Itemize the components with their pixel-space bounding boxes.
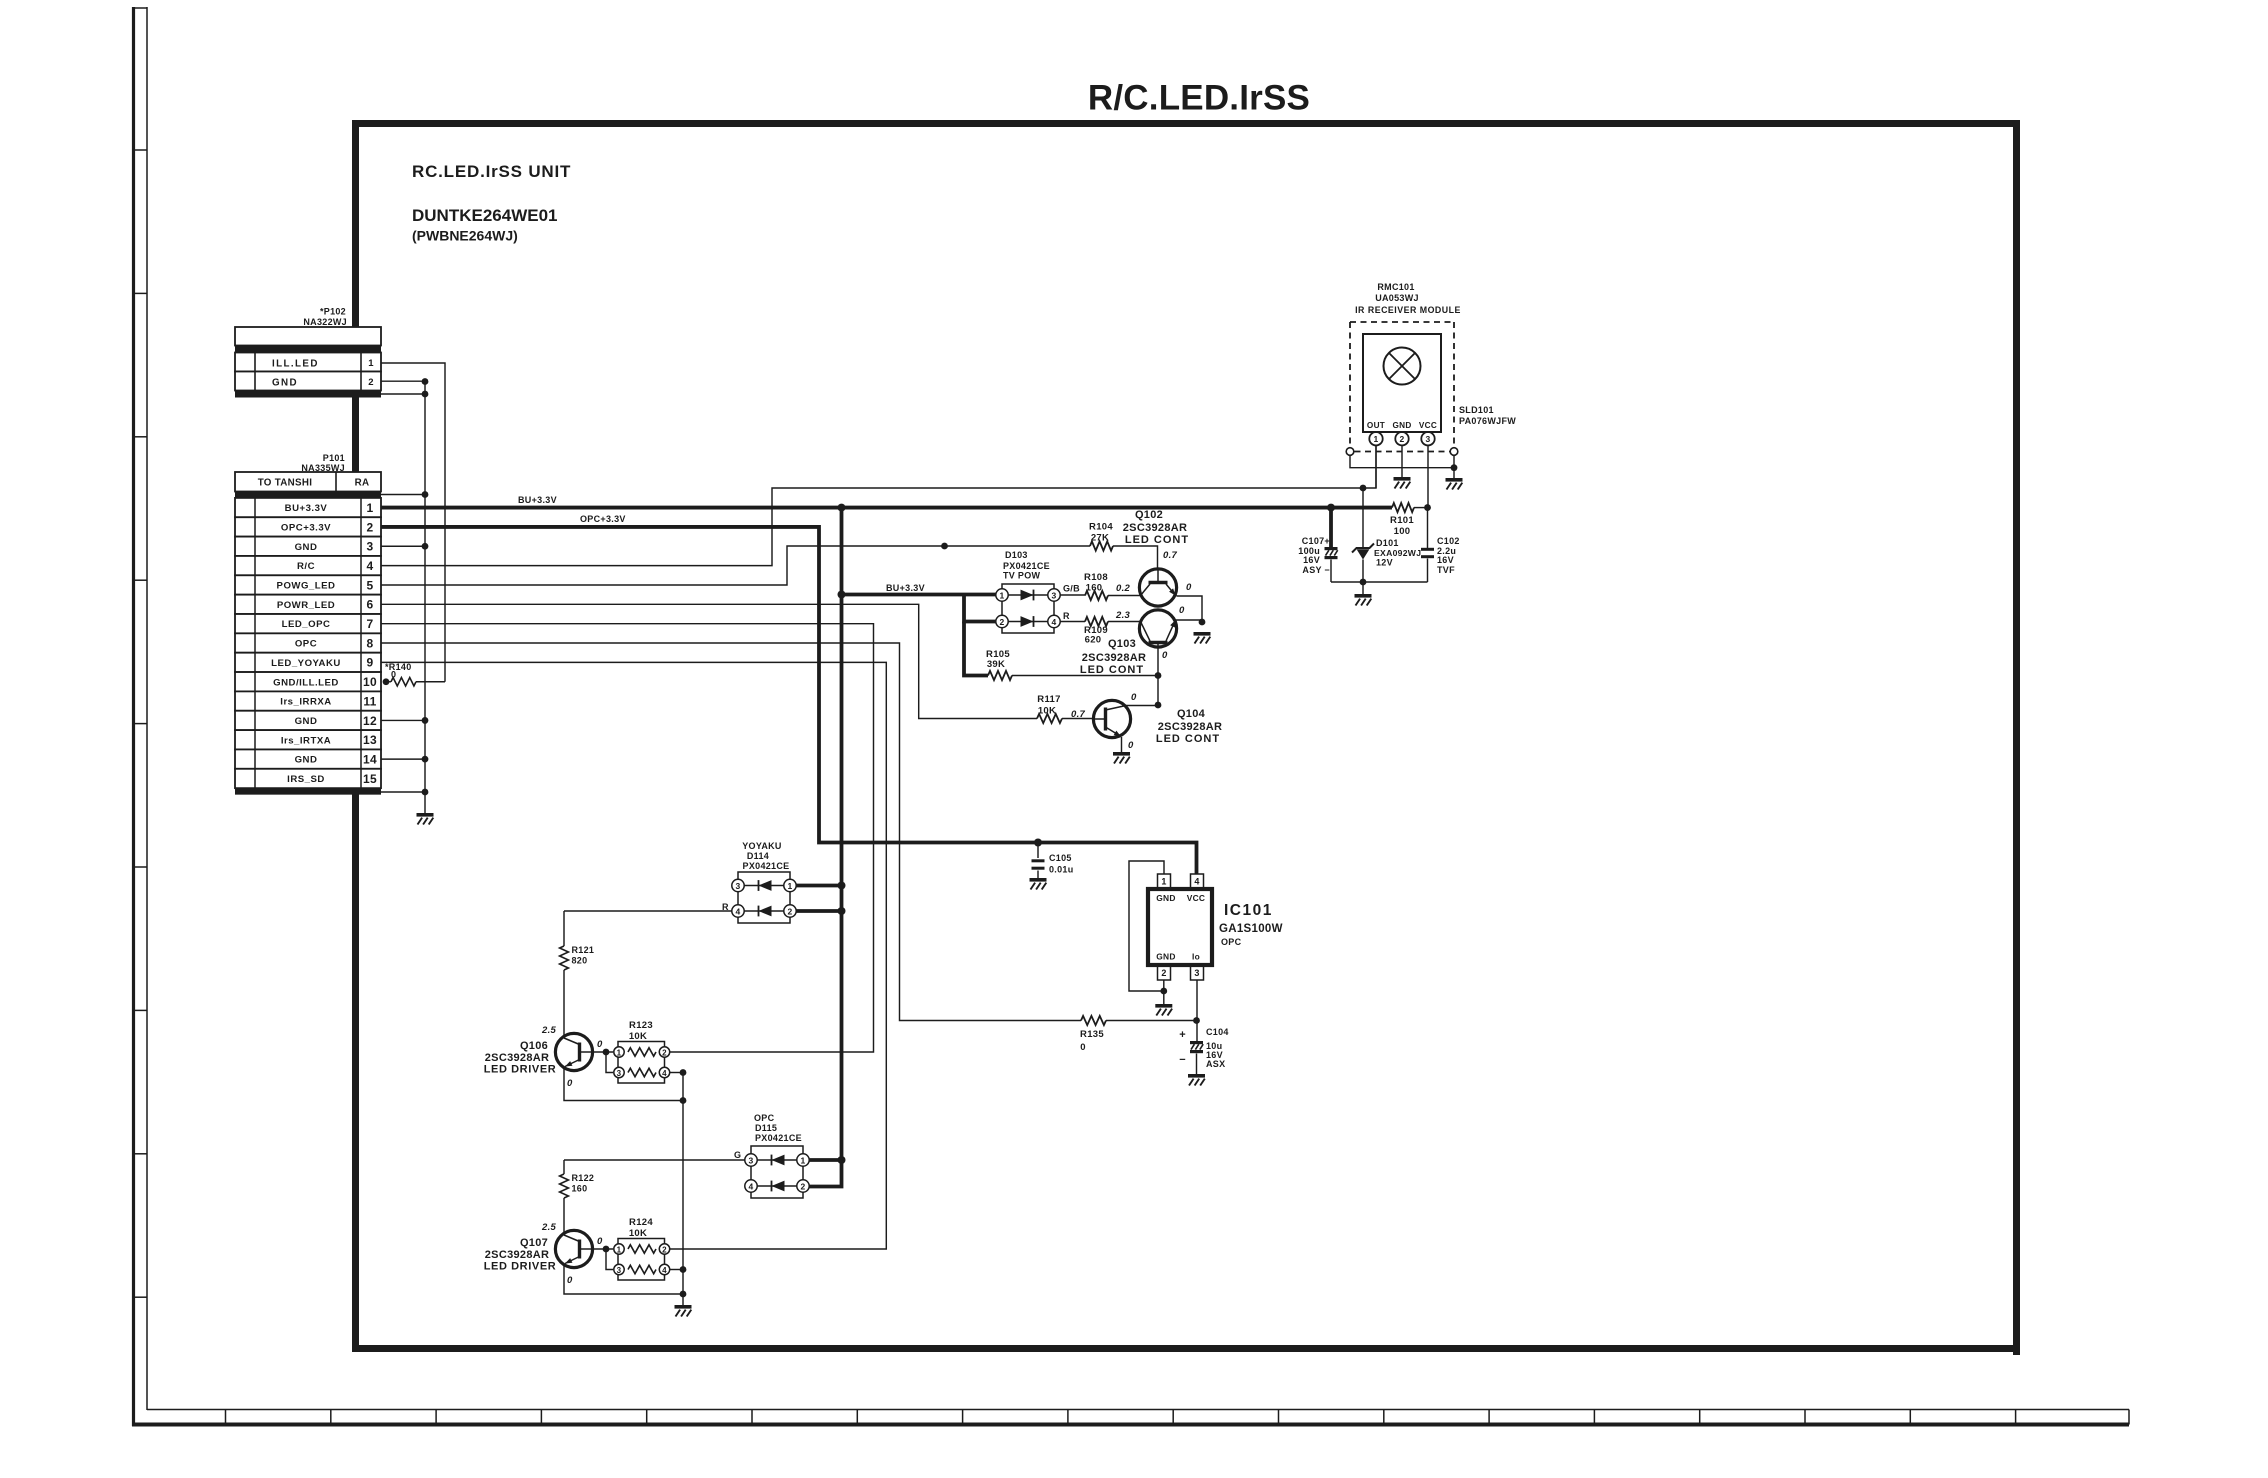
text 0: [1080, 1042, 1086, 1053]
text D114: [747, 851, 769, 861]
text 160: [572, 1184, 588, 1194]
wire GND pin2 down: [1401, 445, 1403, 477]
svg-text:2.5: 2.5: [541, 1222, 557, 1233]
text LED DRIVER: [484, 1064, 557, 1076]
wire P101 shell bottom to GND bus: [381, 791, 425, 793]
junction: [1424, 504, 1431, 511]
svg-text:R101: R101: [1390, 515, 1414, 526]
wire R109 to Q103: [1108, 621, 1140, 623]
text (PWBNE264WJ): [412, 228, 518, 244]
svg-text:BU+3.3V: BU+3.3V: [518, 495, 557, 505]
wire OPC net: [381, 643, 1081, 1020]
text 2.5: [541, 1025, 557, 1036]
pin 2: [996, 615, 1008, 627]
resistor R104: [1090, 541, 1113, 550]
svg-text:4: 4: [662, 1069, 667, 1078]
svg-text:R108: R108: [1084, 572, 1108, 583]
text Q103: [1108, 638, 1136, 650]
junction: [1451, 464, 1458, 471]
text C104: [1206, 1027, 1229, 1037]
text 16V: [1303, 555, 1320, 565]
IR receiver lens symbol: [1384, 348, 1421, 385]
text G: [734, 1150, 741, 1160]
wire ground bus Q106 Q107: [682, 1073, 684, 1306]
svg-text:4: 4: [1194, 877, 1199, 887]
resistor R135: [1081, 1016, 1106, 1025]
wire C104 bottom: [1196, 1054, 1198, 1075]
text R117: [1037, 694, 1060, 705]
svg-text:ASY −: ASY −: [1302, 565, 1330, 575]
svg-text:OPC+3.3V: OPC+3.3V: [580, 514, 626, 524]
text R: [722, 902, 729, 912]
svg-text:3: 3: [1425, 434, 1430, 444]
svg-text:Q106: Q106: [520, 1040, 548, 1052]
text LED CONT: [1125, 534, 1189, 546]
svg-text:C105: C105: [1049, 853, 1072, 863]
svg-text:4: 4: [748, 1182, 753, 1192]
text PX0421CE: [743, 861, 790, 871]
svg-text:1: 1: [787, 881, 792, 891]
svg-text:1: 1: [617, 1048, 622, 1057]
wire C105 stub: [1037, 843, 1039, 859]
wire Q102 emitter: [1177, 596, 1203, 622]
ground: [675, 1305, 692, 1317]
svg-text:12: 12: [363, 714, 377, 728]
svg-text:OPC: OPC: [754, 1113, 775, 1123]
text 0: [1128, 740, 1134, 751]
text R109: [1084, 625, 1108, 636]
text 2SC3928AR: [1082, 652, 1146, 664]
svg-text:4: 4: [1051, 617, 1056, 627]
junction: [680, 1266, 687, 1273]
svg-text:D101: D101: [1376, 538, 1399, 548]
svg-text:SLD101: SLD101: [1459, 405, 1494, 415]
svg-text:LED CONT: LED CONT: [1080, 664, 1144, 676]
junction: [1360, 579, 1367, 586]
wire LED_YOYAKU: [381, 662, 886, 1249]
svg-text:0.7: 0.7: [1163, 550, 1178, 561]
text Q107: [520, 1237, 548, 1249]
text EXA092WJ: [1374, 548, 1421, 558]
svg-text:GND: GND: [295, 542, 318, 553]
svg-text:R: R: [1063, 611, 1070, 621]
junction: [603, 1246, 610, 1253]
text ASY -: [1302, 565, 1330, 575]
svg-text:2.5: 2.5: [541, 1025, 557, 1036]
svg-text:R121: R121: [572, 945, 595, 955]
svg-text:Q104: Q104: [1177, 708, 1206, 720]
svg-text:2.3: 2.3: [1115, 610, 1131, 621]
net label BU+3.3V: [886, 583, 925, 593]
svg-text:*R140: *R140: [385, 662, 412, 672]
text R135: [1080, 1029, 1104, 1040]
text 16V: [1206, 1050, 1223, 1060]
text 0: [1179, 605, 1185, 616]
svg-text:10K: 10K: [629, 1031, 647, 1042]
text IC101: [1224, 902, 1273, 919]
svg-text:7: 7: [367, 617, 374, 631]
junction: [1155, 672, 1162, 679]
svg-text:2SC3928AR: 2SC3928AR: [1123, 522, 1187, 534]
text 10u: [1206, 1041, 1222, 1051]
svg-text:1: 1: [367, 501, 374, 515]
junction: [838, 504, 846, 512]
svg-text:LED DRIVER: LED DRIVER: [484, 1261, 557, 1273]
resistor network R124: [618, 1239, 665, 1281]
text D115: [755, 1123, 777, 1133]
svg-text:OPC: OPC: [295, 639, 317, 650]
text OPC: [754, 1113, 775, 1123]
text 0.7: [1163, 550, 1178, 561]
junction: [422, 717, 429, 724]
text C105: [1049, 853, 1072, 863]
capacitor C104: [1190, 1041, 1203, 1053]
diode D103a: [1008, 590, 1048, 601]
resistor R124a: [628, 1245, 656, 1253]
svg-text:2: 2: [367, 520, 374, 534]
text C102: [1437, 536, 1460, 546]
svg-text:2: 2: [1161, 968, 1166, 978]
text R101: [1390, 515, 1414, 526]
svg-text:R135: R135: [1080, 1029, 1104, 1040]
text Q106: [520, 1040, 548, 1052]
svg-text:Q102: Q102: [1135, 509, 1163, 521]
text R122: [572, 1173, 595, 1183]
svg-text:LED_YOYAKU: LED_YOYAKU: [271, 658, 341, 669]
text R108: [1084, 572, 1108, 583]
svg-text:10K: 10K: [629, 1228, 647, 1239]
resistor R121: [560, 946, 569, 970]
svg-text:BU+3.3V: BU+3.3V: [285, 503, 328, 514]
text 100: [1394, 526, 1411, 537]
svg-text:LED DRIVER: LED DRIVER: [484, 1064, 557, 1076]
svg-text:14: 14: [363, 752, 377, 766]
ground: [417, 813, 434, 825]
text 2.5: [541, 1222, 557, 1233]
svg-text:POWG_LED: POWG_LED: [277, 581, 336, 592]
svg-text:PX0421CE: PX0421CE: [743, 861, 790, 871]
wire Q107 base: [593, 1248, 613, 1250]
svg-text:4: 4: [662, 1266, 667, 1275]
svg-text:0: 0: [1179, 605, 1185, 616]
wire R108 to Q102: [1108, 595, 1140, 597]
pin 2: [659, 1244, 669, 1255]
svg-text:0: 0: [1162, 650, 1168, 661]
zener diode D101: [1352, 544, 1374, 560]
pin 1: [1369, 432, 1382, 445]
wire Q106 emitter: [564, 1068, 683, 1101]
wire Q103 emitter: [1176, 620, 1203, 622]
svg-text:PA076WJFW: PA076WJFW: [1459, 416, 1516, 426]
wire BU+3.3V to D103: [842, 593, 997, 597]
svg-text:0: 0: [1186, 582, 1192, 593]
svg-text:R124: R124: [629, 1217, 653, 1228]
svg-text:POWR_LED: POWR_LED: [277, 600, 335, 611]
wire BU+3.3V: [381, 506, 1392, 510]
svg-text:3: 3: [748, 1156, 753, 1166]
svg-text:TVF: TVF: [1437, 565, 1455, 575]
text R104: [1089, 522, 1113, 533]
wire R/C net: [381, 446, 1376, 566]
wire D103 pin3 to R108: [1060, 594, 1085, 596]
wire zener rail: [1331, 581, 1428, 583]
diode D114a: [744, 880, 784, 891]
wire LED_OPC: [381, 624, 874, 1052]
resistor R117: [1037, 714, 1062, 723]
svg-text:C102: C102: [1437, 536, 1460, 546]
text -: [1179, 1054, 1186, 1066]
svg-text:D114: D114: [747, 851, 769, 861]
text Io: [1192, 952, 1200, 962]
dual diode D103 package: [1002, 584, 1054, 633]
svg-text:0: 0: [1128, 740, 1134, 751]
wire R124 pin4 out: [670, 1269, 683, 1271]
dual diode D115 package: [751, 1146, 803, 1198]
svg-text:R/C.LED.IrSS: R/C.LED.IrSS: [1088, 79, 1310, 118]
wire R121 to Q106: [563, 970, 565, 1036]
wire D101 anode: [1362, 560, 1364, 583]
text 620: [1085, 635, 1102, 646]
text 2.3: [1115, 610, 1131, 621]
text 2SC3928AR: [485, 1249, 549, 1261]
svg-text:GND: GND: [272, 378, 298, 389]
text YOYAKU: [742, 841, 781, 851]
svg-text:GND: GND: [295, 716, 318, 727]
svg-text:1: 1: [617, 1245, 622, 1254]
svg-text:RC.LED.IrSS UNIT: RC.LED.IrSS UNIT: [412, 162, 571, 181]
diode D115a: [757, 1155, 797, 1166]
wire IC101 pin2 down: [1163, 980, 1165, 1004]
svg-text:VCC: VCC: [1187, 893, 1206, 903]
svg-text:1: 1: [1373, 434, 1378, 444]
resistor R108: [1085, 591, 1108, 600]
pin 4: [732, 905, 744, 917]
text 16V: [1437, 555, 1454, 565]
text 100u: [1298, 546, 1320, 556]
svg-text:3: 3: [1194, 968, 1199, 978]
svg-text:ILL.LED: ILL.LED: [272, 359, 319, 370]
svg-text:TV POW: TV POW: [1003, 571, 1041, 581]
wire D114 pin1 to trunk: [796, 884, 841, 888]
pin 2: [1395, 432, 1408, 445]
junction: [680, 1069, 687, 1076]
text 27K: [1091, 533, 1109, 544]
svg-text:Irs_IRTXA: Irs_IRTXA: [281, 735, 331, 746]
svg-text:R104: R104: [1089, 522, 1113, 533]
svg-text:1: 1: [368, 358, 374, 369]
svg-text:IC101: IC101: [1224, 902, 1273, 919]
svg-text:ASX: ASX: [1206, 1059, 1225, 1069]
wire R123 pin4 out: [670, 1072, 683, 1074]
svg-text:RMC101: RMC101: [1377, 282, 1414, 292]
wire R122 to Q107: [563, 1198, 565, 1233]
svg-text:+: +: [1179, 1029, 1186, 1041]
wire Q104 emitter: [1121, 737, 1123, 752]
junction: [680, 1097, 687, 1104]
wire POWG_LED: [381, 546, 1090, 585]
IR receiver body: [1363, 334, 1441, 432]
text UA053WJ: [1375, 293, 1419, 303]
svg-text:2SC3928AR: 2SC3928AR: [1158, 721, 1222, 733]
text 2.2u: [1437, 546, 1456, 556]
svg-text:R122: R122: [572, 1173, 595, 1183]
pin 3: [1421, 432, 1434, 445]
wire ILL.LED riser: [381, 363, 445, 682]
junction: [1160, 988, 1167, 995]
svg-text:D115: D115: [755, 1123, 777, 1133]
wire Q106 base: [593, 1051, 613, 1053]
pin 1: [797, 1154, 809, 1166]
svg-text:3: 3: [367, 540, 374, 554]
pin 4: [1048, 615, 1060, 627]
mount pin left: [1346, 448, 1354, 456]
diode D115b: [757, 1181, 797, 1192]
wire Q107 emitter: [564, 1265, 683, 1294]
wire D114 pin2 to trunk: [796, 909, 841, 913]
svg-text:OPC: OPC: [1221, 937, 1242, 947]
IC101 pin 4 box: [1191, 874, 1204, 889]
mount pin right: [1450, 448, 1458, 456]
svg-text:16V: 16V: [1437, 555, 1454, 565]
text 0.7: [1071, 709, 1086, 720]
junction: [838, 591, 846, 599]
svg-text:PX0421CE: PX0421CE: [1003, 561, 1050, 571]
svg-text:P101: P101: [323, 453, 345, 463]
wire POWR_LED: [381, 604, 1037, 718]
text D101: [1376, 538, 1399, 548]
svg-text:3: 3: [617, 1266, 622, 1275]
svg-text:TO TANSHI: TO TANSHI: [258, 478, 313, 489]
wire GND pin14: [381, 758, 425, 760]
text 10K: [629, 1031, 647, 1042]
wire D103 R105 feed: [964, 622, 988, 676]
svg-text:LED_OPC: LED_OPC: [282, 619, 331, 630]
svg-text:GND/ILL.LED: GND/ILL.LED: [273, 677, 339, 688]
wire D103 pin4 to R109: [1060, 621, 1085, 623]
text R105: [986, 649, 1010, 660]
junction: [1034, 839, 1042, 847]
text LED CONT: [1156, 733, 1220, 745]
pin 2: [797, 1180, 809, 1192]
wire R line down: [563, 911, 565, 946]
ground: [1446, 478, 1463, 490]
svg-text:39K: 39K: [987, 659, 1005, 670]
transistor Q103: [1139, 610, 1176, 648]
junction: [1327, 504, 1335, 512]
ground: [1188, 1074, 1205, 1086]
svg-text:NA322WJ: NA322WJ: [303, 317, 347, 327]
svg-text:11: 11: [363, 694, 376, 708]
svg-text:G/B: G/B: [1063, 584, 1080, 594]
wire C107 bottom: [1330, 560, 1332, 583]
svg-text:GND: GND: [1156, 893, 1176, 903]
svg-text:GND: GND: [1156, 952, 1176, 962]
text GND: [1156, 952, 1176, 962]
svg-text:2: 2: [800, 1182, 805, 1192]
svg-text:OPC+3.3V: OPC+3.3V: [281, 522, 331, 533]
text D103: [1005, 550, 1028, 560]
resistor R105: [988, 671, 1158, 680]
svg-text:15: 15: [363, 772, 377, 786]
svg-text:Q107: Q107: [520, 1237, 548, 1249]
wire IC101 pin1 loop: [1129, 861, 1164, 991]
junction: [422, 756, 429, 763]
wire GND pin12: [381, 719, 425, 721]
capacitor C102: [1421, 548, 1434, 558]
text 0.2: [1116, 583, 1131, 594]
svg-text:0: 0: [597, 1236, 603, 1247]
text VCC: [1419, 421, 1437, 430]
wire D101 cathode: [1362, 488, 1364, 547]
svg-text:0.2: 0.2: [1116, 583, 1131, 594]
text 0: [1131, 692, 1137, 703]
pin 3: [614, 1067, 624, 1078]
transistor Q107: [555, 1230, 593, 1267]
svg-text:*P102: *P102: [320, 307, 346, 317]
wire R117 to Q104 base: [1062, 718, 1094, 720]
transistor Q102: [1139, 569, 1176, 607]
svg-text:620: 620: [1085, 635, 1102, 646]
junction: [1199, 619, 1206, 626]
text 0: [391, 670, 396, 680]
junction D114 pin1: [838, 882, 846, 890]
pin 3: [1048, 589, 1060, 601]
wire rail ground stub: [1362, 582, 1364, 594]
text 10K: [1038, 706, 1056, 717]
svg-text:EXA092WJ: EXA092WJ: [1374, 548, 1421, 558]
pin 2: [784, 905, 796, 917]
text +: [1179, 1029, 1186, 1041]
junction: [422, 378, 429, 385]
svg-text:2: 2: [1399, 434, 1404, 444]
capacitor C107: [1325, 547, 1338, 559]
IC101 pin 2 box: [1158, 965, 1171, 980]
IR receiver module RMC101 dashed outline: [1350, 322, 1454, 452]
ground: [1394, 477, 1411, 489]
svg-text:820: 820: [572, 956, 588, 966]
text R123: [629, 1020, 653, 1031]
transistor Q104: [1093, 700, 1130, 737]
svg-text:3: 3: [735, 881, 740, 891]
text ASX: [1206, 1059, 1225, 1069]
svg-text:RA: RA: [355, 478, 370, 489]
pin 2: [659, 1047, 669, 1058]
text OUT: [1367, 421, 1385, 430]
wire GND pin2 P102: [381, 380, 425, 382]
svg-text:1: 1: [800, 1156, 805, 1166]
pin 3: [614, 1264, 624, 1275]
svg-text:UA053WJ: UA053WJ: [1375, 293, 1419, 303]
text 820: [572, 956, 588, 966]
svg-text:2: 2: [662, 1048, 667, 1057]
ground: [1194, 632, 1211, 644]
svg-text:YOYAKU: YOYAKU: [742, 841, 781, 851]
capacitor C105: [1032, 859, 1045, 869]
pin 3: [732, 879, 744, 891]
svg-text:2SC3928AR: 2SC3928AR: [1082, 652, 1146, 664]
svg-text:IR RECEIVER MODULE: IR RECEIVER MODULE: [1355, 305, 1461, 315]
ground: [1155, 1004, 1172, 1016]
net label BU+3.3V: [518, 495, 557, 505]
ground: [1355, 594, 1372, 606]
ground: [1113, 752, 1130, 764]
text R124: [629, 1217, 653, 1228]
text 0: [597, 1236, 603, 1247]
text SLD101: [1459, 405, 1494, 415]
svg-text:G: G: [734, 1150, 741, 1160]
wire C102 bottom: [1427, 559, 1429, 583]
svg-text:GND: GND: [295, 755, 318, 766]
